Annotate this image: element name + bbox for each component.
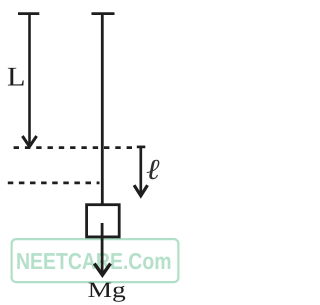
svg-text:NEETCARE.Com: NEETCARE.Com xyxy=(16,248,172,274)
dimension arrow l (head) xyxy=(134,185,147,196)
svg-text:Mg: Mg xyxy=(88,277,126,302)
mass block xyxy=(87,205,120,237)
dimension arrow L (shaft) xyxy=(28,13,31,146)
svg-text:ℓ: ℓ xyxy=(146,154,160,186)
weight vector Mg (head) xyxy=(94,264,110,276)
string wire xyxy=(101,13,104,205)
support bar (top of string) xyxy=(92,12,115,15)
dimension arrow l (shaft) xyxy=(139,146,142,194)
watermark frame NEETCARE.Com xyxy=(12,239,179,282)
weight vector Mg (shaft) xyxy=(101,223,104,273)
dimension arrow l (top bar) xyxy=(137,146,146,149)
support bar (top of L arrow) xyxy=(18,12,39,15)
dashed reference line (lower) xyxy=(8,182,100,185)
dimension arrow L (head) xyxy=(22,136,36,147)
svg-text:L: L xyxy=(7,62,25,92)
dashed reference line (upper) xyxy=(14,146,133,149)
